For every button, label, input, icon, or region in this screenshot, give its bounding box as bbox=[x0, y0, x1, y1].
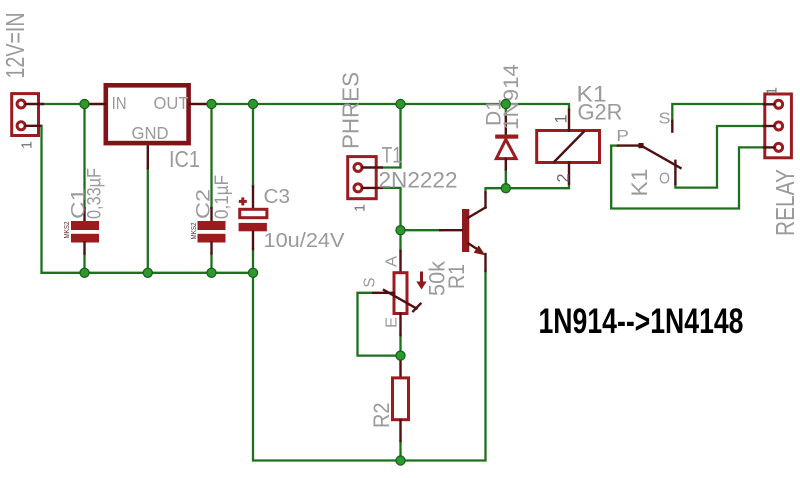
svg-text:R2: R2 bbox=[369, 403, 394, 429]
connector RELAY bbox=[764, 94, 791, 158]
svg-text:S: S bbox=[659, 111, 671, 128]
node C3 top bbox=[248, 99, 257, 108]
node PHRES branch bbox=[396, 99, 405, 108]
wire relay contact P loop to connector RELAY pin3 bbox=[611, 146, 764, 209]
wire C1 top lead bbox=[83, 104, 85, 208]
node IC1 GND bottom bbox=[143, 268, 152, 277]
svg-text:1N914-->1N4148: 1N914-->1N4148 bbox=[539, 302, 744, 341]
node C1 top bbox=[80, 99, 89, 108]
node R2 bottom bbox=[396, 456, 405, 465]
svg-text:C3: C3 bbox=[264, 186, 291, 208]
wire relay contact P green stub bbox=[611, 144, 618, 146]
node C3 bottom bbox=[248, 268, 257, 277]
wire T1 pin2 down to Q1 base node bbox=[382, 188, 401, 230]
wire C2 bottom lead bbox=[210, 254, 212, 273]
svg-text:MKS2: MKS2 bbox=[189, 223, 198, 240]
svg-text:T1: T1 bbox=[382, 143, 403, 168]
svg-text:10u/24V: 10u/24V bbox=[264, 230, 346, 252]
diode D1 bbox=[495, 117, 518, 170]
adjustment arrow of R1 bbox=[416, 272, 426, 290]
wire C2 top lead bbox=[210, 104, 212, 208]
wire Q1 collector to relay coil pin2 bbox=[486, 184, 570, 193]
wire R1 wiper S loop to R1 E node bbox=[358, 293, 401, 356]
svg-text:2: 2 bbox=[554, 174, 573, 183]
wire top rail from X1 pin1 to C1 node bbox=[43, 103, 85, 105]
wire X1 pin2 down to ground mid rail, across to C3 corner bbox=[40, 126, 253, 273]
node R1 E / R2 top bbox=[396, 351, 405, 360]
svg-text:0,33µF: 0,33µF bbox=[85, 168, 106, 219]
connector X1 (12V=IN) bbox=[12, 94, 43, 136]
wire ground mid rail corner down to bottom rail, across and up to Q1 emitter bbox=[253, 271, 486, 461]
potentiometer R1 (50k trimmer) bbox=[373, 251, 420, 335]
wire Q1 base node down to R1 pin A bbox=[399, 230, 401, 251]
resistor R2 bbox=[393, 356, 409, 441]
wire R1 E to node bbox=[399, 335, 401, 356]
node C2 bottom bbox=[207, 268, 216, 277]
wire relay contact O to connector RELAY pin2 bbox=[675, 126, 764, 188]
svg-text:OUT: OUT bbox=[154, 93, 189, 113]
capacitor C2 bbox=[198, 208, 226, 254]
svg-text:R1: R1 bbox=[444, 264, 469, 289]
svg-text:1: 1 bbox=[19, 141, 36, 149]
node C2 top bbox=[207, 99, 216, 108]
wire top rail from IC1 OUT to relay coil pin1 corner bbox=[212, 104, 570, 110]
svg-text:0,1µF: 0,1µF bbox=[212, 175, 233, 219]
node C1 bottom bbox=[80, 268, 89, 277]
svg-text:1: 1 bbox=[352, 204, 369, 212]
svg-text:2N2222: 2N2222 bbox=[379, 168, 458, 193]
wire relay contact S to connector RELAY pin1 bbox=[672, 104, 764, 121]
svg-text:IC1: IC1 bbox=[169, 146, 200, 172]
svg-text:G2R: G2R bbox=[578, 100, 623, 125]
svg-text:RELAY: RELAY bbox=[770, 169, 800, 236]
wire R2 bottom lead to bottom rail bbox=[399, 441, 401, 461]
wire C3 bottom lead bbox=[252, 249, 254, 273]
wire D1 top lead bbox=[505, 104, 507, 117]
capacitor C3 electrolytic bbox=[239, 186, 267, 249]
svg-text:O: O bbox=[659, 171, 670, 188]
wire D1 bottom lead to collector rail bbox=[505, 170, 507, 189]
wire Q1 base node to base stub bbox=[401, 229, 441, 231]
wire top rail to T1 pin1 bbox=[382, 104, 401, 168]
svg-text:MKS2: MKS2 bbox=[62, 222, 71, 239]
capacitor C1 bbox=[71, 208, 99, 254]
node Q1 base bbox=[396, 226, 405, 235]
svg-text:PHRES: PHRES bbox=[338, 72, 364, 149]
svg-text:12V=IN: 12V=IN bbox=[0, 13, 30, 79]
connector T1 (PHRES) bbox=[348, 157, 382, 199]
svg-text:GND: GND bbox=[132, 123, 169, 143]
svg-text:1N914: 1N914 bbox=[500, 64, 523, 130]
IC1 regulator box bbox=[85, 85, 212, 168]
wire C3 top lead bbox=[252, 104, 254, 186]
svg-text:K1: K1 bbox=[627, 169, 652, 197]
node D1 top bbox=[501, 99, 510, 108]
svg-text:1: 1 bbox=[552, 115, 571, 124]
wire IC1 GND to mid rail bbox=[147, 168, 149, 273]
wire C1 bottom lead bbox=[83, 254, 85, 273]
svg-text:S: S bbox=[362, 278, 379, 288]
svg-text:1: 1 bbox=[764, 87, 781, 95]
svg-text:A: A bbox=[384, 256, 401, 267]
relay coil K1 bbox=[537, 110, 600, 184]
svg-text:E: E bbox=[384, 317, 401, 328]
relay contact K1 switch bbox=[618, 121, 681, 184]
transistor Q1 (2N2222) bbox=[440, 193, 485, 272]
svg-text:P: P bbox=[616, 128, 629, 145]
node D1 bottom / collector bbox=[501, 184, 510, 193]
svg-text:IN: IN bbox=[112, 93, 127, 113]
